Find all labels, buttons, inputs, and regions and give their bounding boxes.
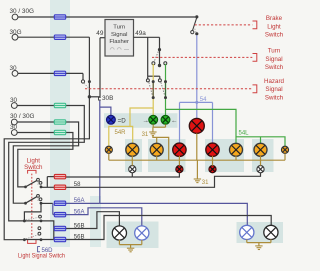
svg-text:Light Signal Switch: Light Signal Switch xyxy=(18,253,65,260)
svg-text:54: 54 xyxy=(200,97,207,103)
svg-text:Switch: Switch xyxy=(24,164,43,171)
svg-text:30 / 30G: 30 / 30G xyxy=(10,113,35,120)
svg-text:54R: 54R xyxy=(115,130,127,136)
svg-text:→: → xyxy=(142,118,149,125)
svg-text:Switch: Switch xyxy=(265,32,284,39)
svg-text:Signal: Signal xyxy=(265,56,282,63)
svg-text:49: 49 xyxy=(96,30,104,37)
svg-text:30: 30 xyxy=(10,65,18,72)
svg-text:30: 30 xyxy=(10,124,18,131)
svg-text:←: ← xyxy=(171,118,178,125)
svg-text:Signal: Signal xyxy=(111,32,127,38)
svg-text:Flasher: Flasher xyxy=(109,39,129,45)
svg-text:Switch: Switch xyxy=(265,95,284,102)
svg-text:30: 30 xyxy=(10,97,18,104)
svg-text:Turn: Turn xyxy=(268,48,281,55)
svg-text:56A: 56A xyxy=(74,210,85,216)
svg-text:56A: 56A xyxy=(74,198,85,204)
svg-text:30B: 30B xyxy=(102,95,113,102)
svg-text:Hazard: Hazard xyxy=(264,78,285,85)
svg-text:56B: 56B xyxy=(74,235,85,241)
svg-text:30 / 30G: 30 / 30G xyxy=(10,8,35,15)
svg-text:Signal: Signal xyxy=(265,86,282,93)
svg-text:58: 58 xyxy=(74,182,81,188)
svg-text:Light: Light xyxy=(267,23,281,30)
svg-text:56B: 56B xyxy=(74,223,85,229)
svg-text:=D: =D xyxy=(118,117,127,124)
svg-text:Switch: Switch xyxy=(265,64,284,71)
svg-text:31: 31 xyxy=(202,180,209,186)
svg-text:49a: 49a xyxy=(135,30,146,37)
svg-text:Turn: Turn xyxy=(113,25,125,31)
svg-text:30G: 30G xyxy=(10,29,22,36)
svg-text:31: 31 xyxy=(142,132,149,138)
svg-text:Brake: Brake xyxy=(266,15,283,22)
svg-text:54L: 54L xyxy=(239,131,250,137)
